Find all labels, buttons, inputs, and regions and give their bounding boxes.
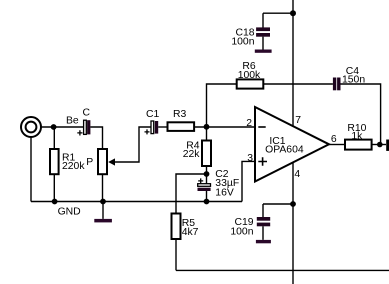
svg-text:GND: GND [58, 207, 81, 218]
capacitor C2 (electrolytic) [198, 184, 211, 187]
ground below C18 [255, 50, 272, 53]
svg-text:22k: 22k [183, 149, 201, 160]
svg-text:150n: 150n [342, 75, 365, 86]
svg-text:100n: 100n [231, 37, 254, 48]
svg-text:R3: R3 [173, 109, 187, 120]
node C2 bottom junction [204, 199, 210, 205]
node pot ground junction [100, 199, 106, 205]
wire C4 to output node [340, 84, 380, 145]
capacitor plate at right edge [386, 140, 389, 151]
capacitor C2 leads [206, 174, 208, 202]
wire C1 to R3 [158, 126, 167, 128]
svg-text:2: 2 [246, 118, 252, 129]
label R4 22k [183, 141, 201, 160]
svg-text:100n: 100n [230, 226, 253, 237]
plus symbol pin3 [258, 157, 267, 166]
svg-text:6: 6 [331, 134, 337, 145]
resistor R3 [168, 122, 195, 131]
wire R10 to output node [372, 144, 386, 146]
resistor R1 leads [53, 127, 55, 202]
wire inverting node up to feedback line [207, 84, 237, 127]
resistor R10 [345, 140, 372, 150]
wire R5 down [175, 239, 177, 270]
label C18 [231, 27, 254, 47]
resistor R6 [237, 79, 264, 88]
label C4 150n [342, 66, 365, 85]
svg-text:220k: 220k [62, 161, 85, 172]
svg-text:100k: 100k [238, 70, 261, 81]
capacitor C4 [333, 78, 341, 91]
node pin4 junction [290, 201, 296, 207]
op-amp IC1 [255, 107, 329, 182]
wire R3 to op-amp pin2 [194, 126, 255, 128]
wire R6 to C4 [263, 83, 333, 85]
connector input jack [21, 117, 41, 137]
label IC1 OPA604 [265, 136, 304, 156]
wire non-inverting input pin3 [242, 161, 255, 201]
node output junction [377, 142, 383, 148]
wire C to potentiometer top [90, 127, 102, 149]
svg-text:OPA604: OPA604 [265, 145, 304, 156]
wire op-amp output [329, 144, 345, 146]
node input junction [51, 124, 57, 130]
ground below potentiometer [102, 202, 104, 219]
wire wiper to C1 [114, 127, 151, 162]
label R1 220k [62, 153, 85, 172]
capacitor C (electrolytic) [84, 120, 87, 134]
svg-text:3: 3 [247, 153, 253, 164]
wire bottom supply rail [176, 269, 389, 271]
svg-text:16V: 16V [215, 187, 234, 198]
svg-text:C1: C1 [146, 109, 160, 120]
svg-text:C: C [83, 107, 91, 118]
label C2 33uF 16V [215, 169, 239, 199]
wire V+ rail vertical x=293 top edge to bottom edge [292, 0, 294, 284]
wire junction to R5 top [176, 174, 207, 214]
wiper arrow of P [108, 158, 115, 165]
label R5 4k7 [182, 218, 199, 238]
resistor R4 [202, 141, 211, 167]
capacitor C19 plates [257, 217, 270, 226]
wire connector to ground rail [30, 137, 32, 202]
svg-text:1k: 1k [351, 131, 363, 142]
svg-text:P: P [86, 157, 93, 168]
resistor R4 leads [206, 127, 208, 174]
capacitor C1 (electrolytic) [151, 121, 154, 134]
capacitor C18 leads [262, 13, 264, 49]
resistor R5 [172, 214, 181, 240]
capacitor C18 plates [256, 27, 270, 36]
potentiometer P body [98, 149, 107, 174]
wire C18 feed horizontal y=13 [263, 12, 293, 14]
capacitor C19 leads [262, 204, 264, 240]
plus sign of C2 [198, 178, 203, 183]
plus sign of C1 [145, 129, 150, 134]
svg-text:4k7: 4k7 [182, 227, 199, 238]
label R6 100k [238, 61, 261, 81]
plus sign of C [77, 130, 82, 135]
wire GND rail [31, 201, 242, 203]
node supply junction [290, 10, 296, 16]
ground below C19 [256, 240, 271, 243]
node R1 ground junction [52, 199, 58, 205]
wire pot bottom to ground rail [102, 174, 104, 201]
resistor R1 [50, 149, 59, 174]
node inverting input junction [204, 124, 210, 130]
svg-text:4: 4 [294, 169, 300, 180]
node R4/C2/R5 junction [204, 171, 210, 177]
svg-text:Be: Be [66, 115, 79, 126]
label C19 100n [230, 217, 253, 238]
label R10 1k [347, 123, 366, 142]
wire pin4 branch to C19 [263, 203, 293, 205]
svg-text:7: 7 [295, 115, 301, 126]
wire input signal y=127 [41, 126, 84, 128]
minus symbol pin2 [258, 126, 265, 128]
